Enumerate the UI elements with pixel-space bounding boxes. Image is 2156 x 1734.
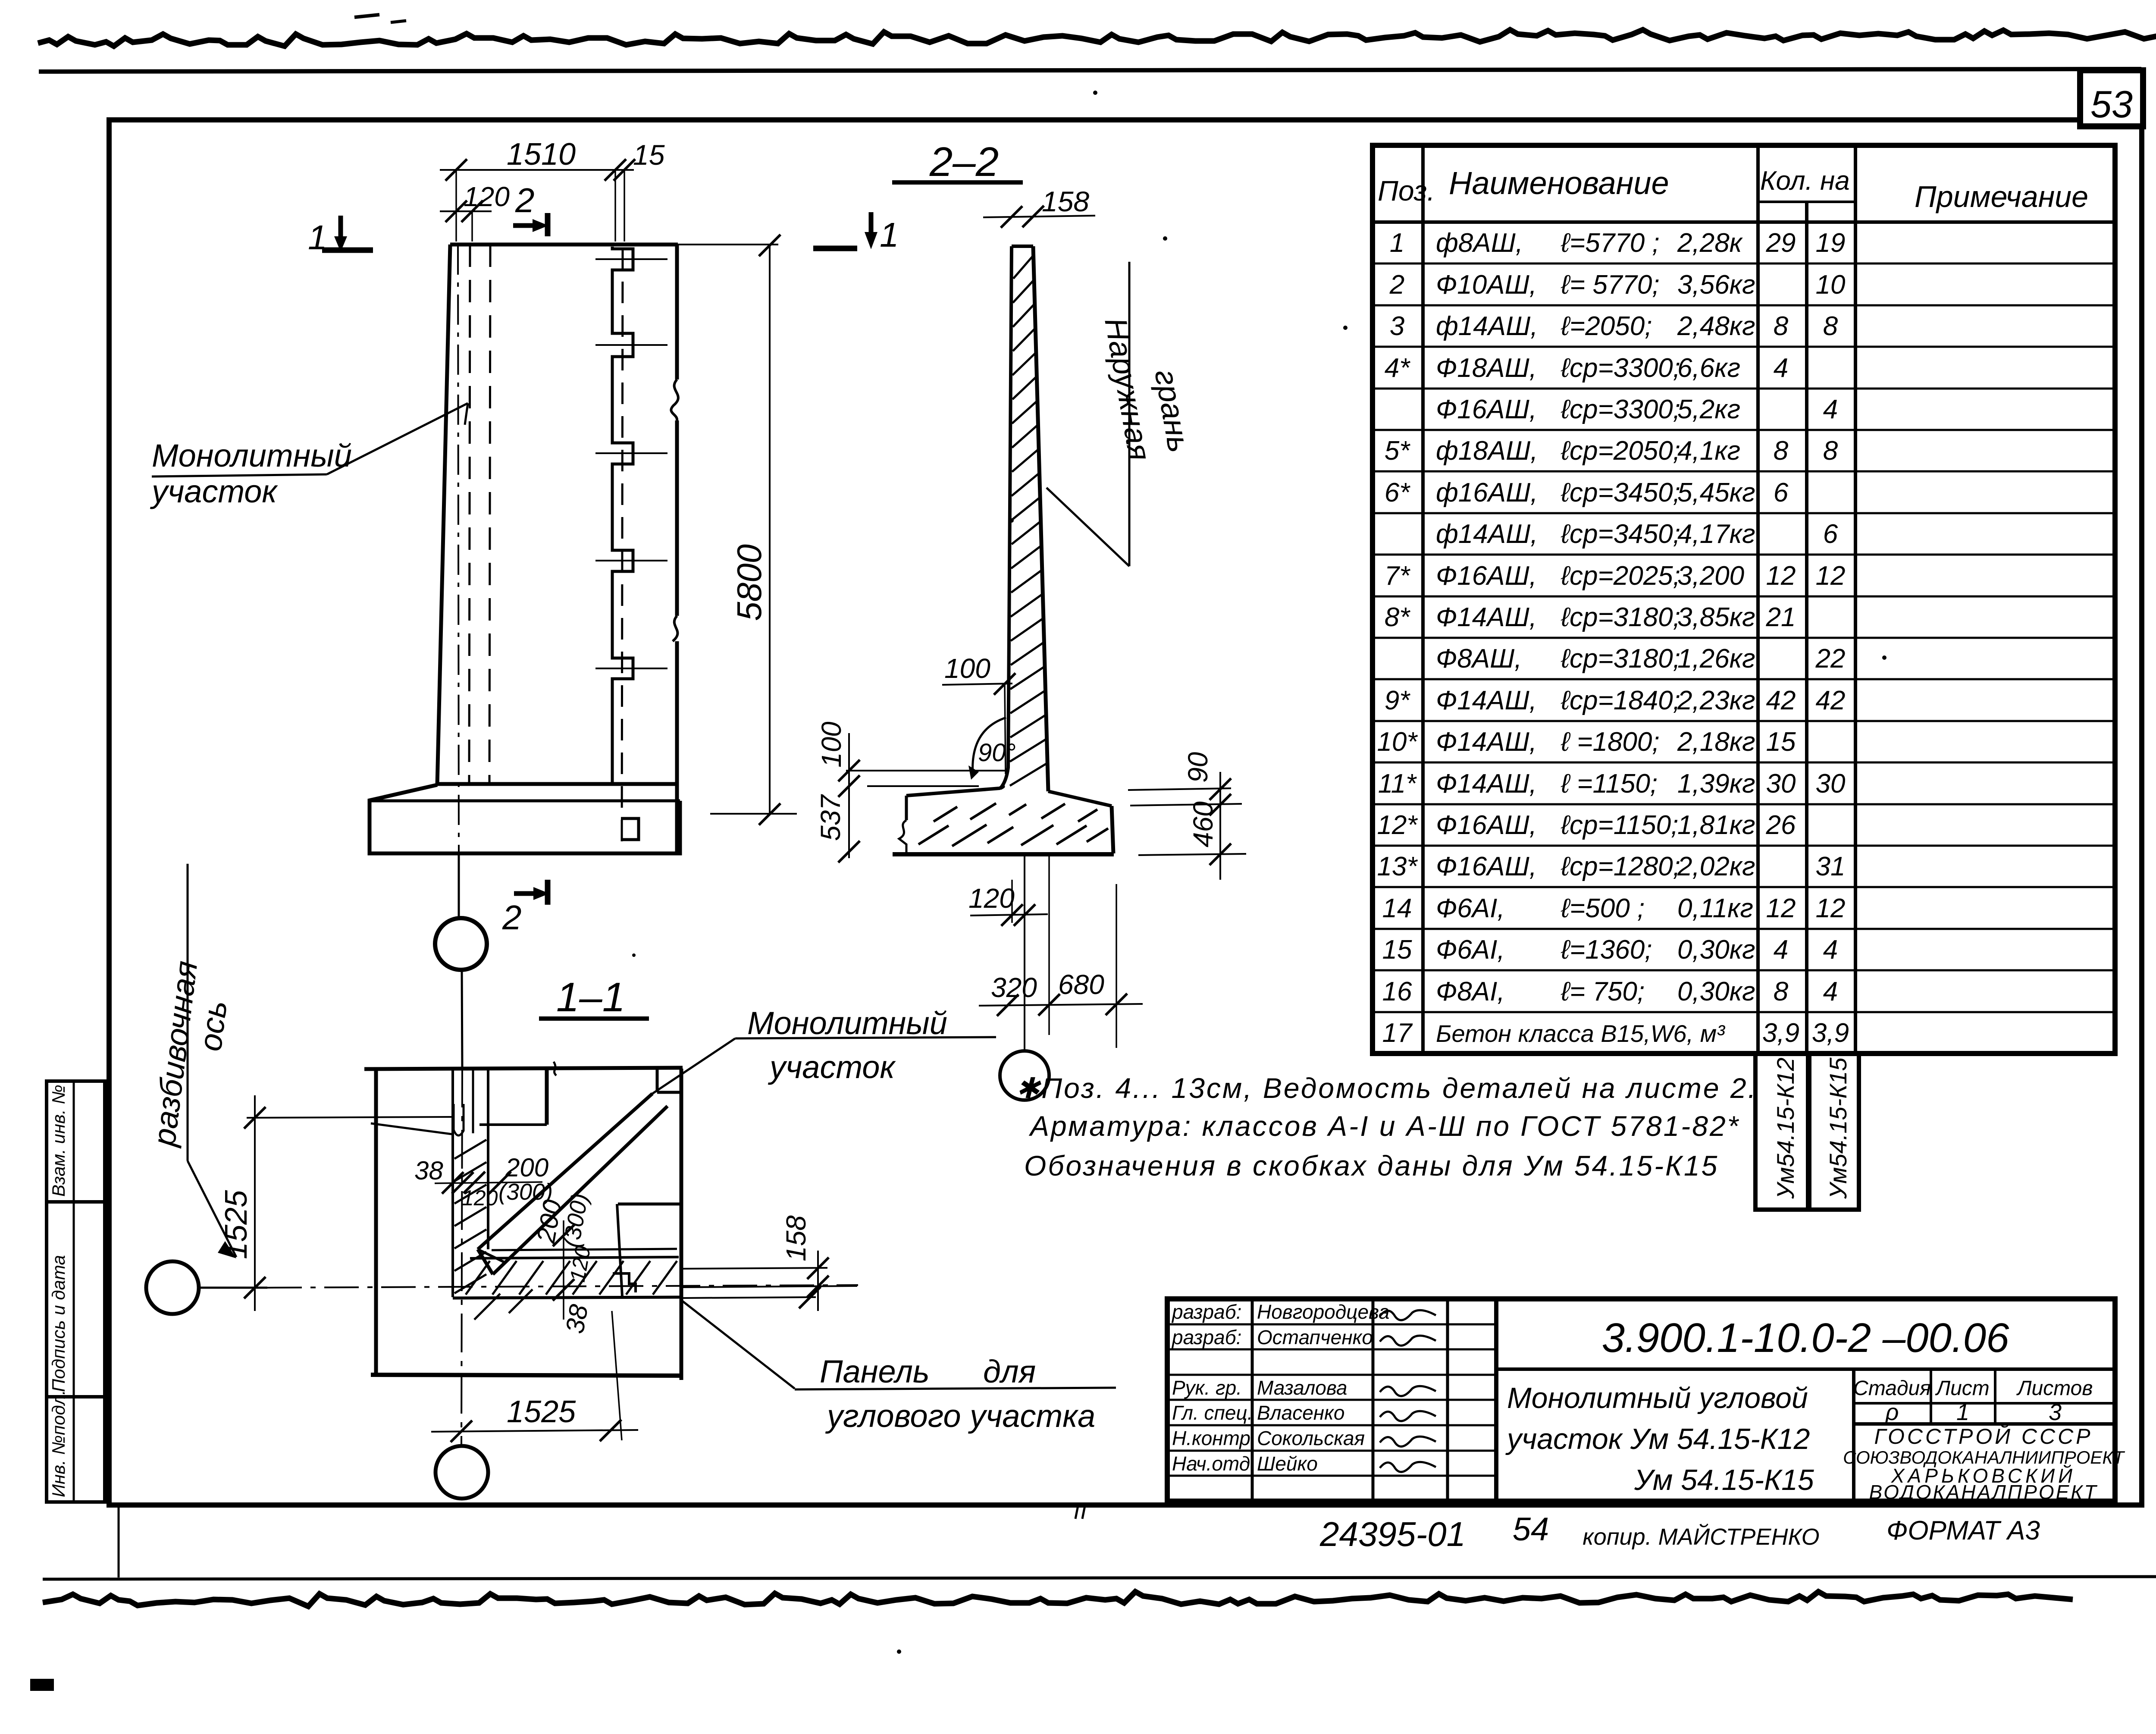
svg-text:Листов: Листов	[2016, 1377, 2093, 1400]
svg-text:21: 21	[1766, 602, 1796, 632]
parts table row lines	[1373, 263, 2115, 1012]
svg-text:Ум54.15-К15: Ум54.15-К15	[1824, 1057, 1852, 1199]
svg-text:100: 100	[944, 653, 990, 684]
svg-text:Ф10АШ,: Ф10АШ,	[1436, 270, 1537, 300]
svg-text:22: 22	[1815, 644, 1846, 674]
svg-text:14: 14	[1382, 894, 1412, 923]
svg-text:17: 17	[1382, 1018, 1413, 1048]
svg-text:Власенко: Власенко	[1257, 1402, 1344, 1424]
svg-text:12: 12	[1766, 561, 1796, 591]
top torn scan edge	[38, 30, 2156, 46]
svg-text:24395-01: 24395-01	[1319, 1515, 1466, 1553]
plan: horizontal axis dash-dot	[267, 1285, 858, 1288]
svg-text:ф16АШ,: ф16АШ,	[1436, 478, 1538, 508]
svg-text:3.900.1-10.0-2 –00.06: 3.900.1-10.0-2 –00.06	[1602, 1315, 2009, 1361]
svg-text:Остапченко: Остапченко	[1257, 1326, 1373, 1348]
svg-text:Ф16АШ,: Ф16АШ,	[1436, 395, 1537, 424]
svg-text:8: 8	[1774, 977, 1789, 1007]
svg-text:6,6кг: 6,6кг	[1677, 353, 1740, 383]
svg-text:Ф16АШ,: Ф16АШ,	[1436, 561, 1537, 591]
svg-text:Взам. инв. №: Взам. инв. №	[48, 1085, 69, 1197]
svg-text:ℓср=3300;: ℓср=3300;	[1561, 395, 1680, 424]
svg-text:ℓ=1360;: ℓ=1360;	[1561, 935, 1652, 965]
svg-text:12*: 12*	[1377, 810, 1418, 840]
svg-text:680: 680	[1058, 969, 1104, 1000]
svg-text:4: 4	[1823, 395, 1838, 424]
plan: wall inner face vertical	[487, 1069, 489, 1249]
svg-text:Ф16АШ,: Ф16АШ,	[1436, 852, 1537, 881]
plan: bottom axis bubble	[436, 1446, 488, 1499]
svg-text:1,39кг: 1,39кг	[1677, 769, 1755, 799]
svg-text:Ум54.15-К12: Ум54.15-К12	[1772, 1057, 1799, 1199]
svg-text:30: 30	[1766, 769, 1796, 799]
svg-text:ℓ= 5770;: ℓ= 5770;	[1561, 270, 1660, 300]
scan noise dots	[632, 91, 1887, 1654]
svg-text:Кол. на: Кол. на	[1760, 166, 1850, 196]
svg-text:0,30кг: 0,30кг	[1677, 977, 1755, 1007]
svg-text:Ф14АШ,: Ф14АШ,	[1436, 686, 1537, 715]
svg-text:3,9: 3,9	[1762, 1018, 1799, 1048]
svg-text:ℓср=1840;: ℓср=1840;	[1561, 686, 1680, 715]
parts table column lines	[1423, 145, 1855, 1054]
top-center stray dashes	[354, 15, 406, 22]
svg-text:Н.контр: Н.контр	[1172, 1427, 1250, 1449]
svg-text:Рук. гр.: Рук. гр.	[1172, 1377, 1242, 1399]
svg-text:158: 158	[1042, 185, 1089, 217]
svg-text:1: 1	[1956, 1399, 1969, 1425]
svg-text:ℓср=2025;: ℓср=2025;	[1561, 561, 1680, 591]
svg-text:5800: 5800	[730, 544, 768, 621]
svg-text:углового участка: углового участка	[825, 1398, 1095, 1434]
svg-text:30: 30	[1816, 769, 1846, 799]
svg-text:2: 2	[515, 181, 535, 219]
svg-text:0,30кг: 0,30кг	[1677, 935, 1755, 965]
section cut mark 1 (elevation top)	[308, 216, 373, 257]
svg-text:разраб:: разраб:	[1171, 1301, 1241, 1323]
svg-text:разраб:: разраб:	[1171, 1326, 1241, 1348]
svg-text:19: 19	[1816, 228, 1846, 258]
svg-text:ф18АШ,: ф18АШ,	[1436, 436, 1538, 466]
svg-text:10: 10	[1816, 270, 1846, 300]
svg-text:26: 26	[1766, 810, 1796, 840]
svg-text:13*: 13*	[1377, 852, 1418, 881]
svg-text:5*: 5*	[1385, 436, 1410, 466]
parts table outer frame	[1373, 145, 2115, 1054]
svg-text:120: 120	[462, 1186, 498, 1210]
svg-text:10*: 10*	[1377, 727, 1418, 757]
svg-text:1510: 1510	[507, 137, 576, 172]
svg-text:ℓср=3450;: ℓср=3450;	[1561, 519, 1680, 549]
svg-text:Наименование: Наименование	[1449, 165, 1669, 201]
section dim 320 / 680	[979, 855, 1143, 1048]
svg-text:ℓ=5770 ;: ℓ=5770 ;	[1561, 228, 1660, 258]
plan: adjacent panel section right arm	[613, 1204, 683, 1296]
svg-text:ВОДОКАНАЛПРОЕКТ: ВОДОКАНАЛПРОЕКТ	[1869, 1481, 2098, 1503]
section 2-2 level lines left	[846, 771, 1007, 786]
doc number cell	[1496, 1315, 2115, 1369]
svg-text:Сокольская: Сокольская	[1257, 1427, 1365, 1449]
elevation axis bubble	[435, 853, 487, 1069]
svg-text:4: 4	[1823, 935, 1838, 965]
svg-text:Ф6АI,: Ф6АI,	[1436, 894, 1505, 923]
svg-text:3: 3	[1390, 311, 1404, 341]
svg-text:Монолитный: Монолитный	[152, 438, 352, 473]
svg-text:537: 537	[815, 794, 846, 841]
svg-text:12: 12	[1766, 894, 1796, 923]
svg-text:Ф18АШ,: Ф18АШ,	[1436, 353, 1537, 383]
plan: vertical axis through	[461, 1069, 462, 1446]
svg-text:8: 8	[1774, 436, 1789, 466]
svg-text:Ум 54.15-К15: Ум 54.15-К15	[1634, 1464, 1814, 1496]
section title 2-2	[892, 139, 1023, 185]
elevation: wall left edge (tapered)	[437, 245, 450, 785]
svg-text:8: 8	[1774, 311, 1789, 341]
svg-text:2,23кг: 2,23кг	[1677, 686, 1755, 715]
svg-text:2: 2	[502, 898, 522, 937]
parts table header texts	[1373, 165, 2115, 222]
svg-text:8: 8	[1823, 436, 1838, 466]
plan dim 158 (right)	[683, 1215, 857, 1311]
leader label Panel dlya uglovogo uchastka	[681, 1300, 1116, 1434]
svg-text:Лист: Лист	[1935, 1377, 1990, 1400]
svg-text:100: 100	[816, 721, 847, 768]
elevation: foundation outline	[370, 784, 680, 853]
plan small dims 38 200 300 120 (top cluster)	[414, 1153, 553, 1210]
svg-text:ℓ =1800;: ℓ =1800;	[1561, 727, 1660, 757]
svg-text:1: 1	[1390, 228, 1404, 258]
svg-text:4: 4	[1823, 977, 1838, 1007]
svg-text:Панель: Панель	[820, 1354, 930, 1389]
svg-text:2,02кг: 2,02кг	[1677, 852, 1755, 881]
section 2-2 foundation outline	[893, 787, 1114, 854]
svg-text:1525: 1525	[219, 1190, 254, 1259]
elevation: wall top edge	[450, 243, 778, 247]
plan: corner wall thick vertical	[479, 1069, 547, 1125]
svg-text:4*: 4*	[1385, 353, 1410, 383]
vertical label boxes Um54.15-K12 / K15	[1755, 1054, 1859, 1210]
svg-text:Ф16АШ,: Ф16АШ,	[1436, 810, 1537, 840]
elevation: foundation notch square	[621, 818, 639, 840]
elevation: panel right heavy edge with breaks	[671, 245, 678, 853]
section 2-2 foundation hatching	[918, 803, 1108, 846]
svg-text:1,26кг: 1,26кг	[1677, 644, 1755, 674]
section dim 460 (vertical, right)	[1188, 801, 1231, 865]
title block signature texts	[1171, 1301, 1390, 1475]
svg-text:0,11кг: 0,11кг	[1677, 894, 1753, 923]
svg-text:Инв. №подл.: Инв. №подл.	[48, 1390, 69, 1497]
svg-text:2,48кг: 2,48кг	[1677, 311, 1755, 341]
svg-text:42: 42	[1766, 686, 1796, 715]
svg-text:для: для	[983, 1354, 1036, 1389]
svg-text:6: 6	[1823, 519, 1838, 549]
left margin stamp: Podpis i data cell	[47, 1202, 105, 1397]
svg-text:Обозначения в скобках даны дл: Обозначения в скобках даны для Ум 54.15-…	[1024, 1150, 1719, 1182]
svg-text:5,2кг: 5,2кг	[1677, 395, 1740, 424]
svg-text:29: 29	[1766, 228, 1796, 258]
section 2-2 wall outline	[1000, 246, 1048, 791]
svg-text:320: 320	[991, 972, 1037, 1003]
title block outer	[1167, 1299, 2115, 1501]
plan: panel joint groove	[454, 1069, 473, 1135]
plan: wall outer face vertical	[451, 1069, 454, 1297]
svg-text:2,18кг: 2,18кг	[1677, 727, 1755, 757]
leader label Monolitnyi uchastok (elevation)	[150, 403, 468, 509]
elevation dim 5800	[710, 235, 797, 825]
svg-text:Поз.: Поз.	[1378, 175, 1435, 207]
title block signatures squiggles	[1380, 1310, 1436, 1472]
double tick mark below frame bottom	[1075, 1506, 1085, 1519]
bottom rule below frame	[43, 1577, 2156, 1579]
svg-text:200: 200	[505, 1153, 548, 1182]
leader label Monolitnyi uchastok (plan)	[652, 1005, 996, 1094]
svg-text:42: 42	[1816, 686, 1846, 715]
svg-text:53: 53	[2090, 83, 2133, 125]
elevation: hidden edge dashed line B	[489, 245, 490, 784]
stadiya list listov header	[1853, 1369, 2115, 1425]
svg-text:ℓср=1150;: ℓср=1150;	[1561, 810, 1678, 840]
svg-text:3,9: 3,9	[1812, 1018, 1849, 1048]
svg-text:31: 31	[1816, 852, 1846, 881]
organization cell	[1843, 1424, 2125, 1503]
svg-text:12: 12	[1816, 894, 1846, 923]
svg-text:6: 6	[1774, 478, 1789, 508]
svg-text:Ф14АШ,: Ф14АШ,	[1436, 769, 1537, 799]
elevation: panel notched joint line	[612, 247, 633, 784]
bottom margin texts	[1319, 1511, 2040, 1553]
svg-text:4,17кг: 4,17кг	[1677, 519, 1755, 549]
label Razbivochnaya os	[146, 864, 236, 1258]
svg-text:Бетон класса В15,W6, м³: Бетон класса В15,W6, м³	[1436, 1020, 1725, 1047]
svg-text:16: 16	[1382, 977, 1412, 1007]
svg-text:ℓ =1150;: ℓ =1150;	[1561, 769, 1658, 799]
section dim 158	[983, 185, 1095, 228]
plan: far wall face lines entering left	[247, 1117, 452, 1134]
svg-text:ℓ= 750;: ℓ= 750;	[1561, 977, 1645, 1007]
svg-text:ГОССТРОЙ СССР: ГОССТРОЙ СССР	[1874, 1424, 2093, 1449]
svg-text:Ф14АШ,: Ф14АШ,	[1436, 602, 1537, 632]
svg-text:15: 15	[1766, 727, 1796, 757]
svg-text:90°: 90°	[978, 739, 1016, 767]
svg-text:4: 4	[1774, 935, 1788, 965]
section dim 537 (vertical, left)	[815, 794, 860, 862]
svg-text:Нач.отд: Нач.отд	[1172, 1452, 1250, 1475]
title block signature columns	[1252, 1299, 1496, 1501]
parts table body texts	[1377, 228, 1849, 1048]
svg-text:5,45кг: 5,45кг	[1677, 478, 1755, 508]
svg-text:✱Поз. 4... 13см, Ведомость д: ✱Поз. 4... 13см, Ведомость деталей на ли…	[1016, 1072, 1758, 1104]
bottom torn scan edge	[43, 1592, 2073, 1606]
svg-text:8*: 8*	[1385, 602, 1410, 632]
section dim 100 (top of toe)	[942, 653, 1015, 774]
svg-text:12: 12	[1816, 561, 1846, 591]
section dim 100 (vertical, left)	[816, 721, 860, 858]
plan dim 1525 (bottom)	[431, 1311, 638, 1442]
section dim 120 (below)	[968, 880, 1048, 926]
svg-text:1: 1	[308, 218, 327, 257]
elevation dim 15	[614, 139, 665, 241]
svg-text:Ф6АI,: Ф6АI,	[1436, 935, 1505, 965]
svg-text:3,85кг: 3,85кг	[1677, 602, 1755, 632]
svg-text:15: 15	[1382, 935, 1412, 965]
svg-text:158: 158	[780, 1215, 812, 1261]
plan: corner square top right	[657, 1069, 683, 1092]
elevation dim 1510	[440, 137, 634, 241]
plan: top edge break squiggle	[554, 1062, 556, 1076]
section level lines right	[1128, 788, 1246, 855]
svg-text:ℓср=3180;: ℓср=3180;	[1561, 602, 1680, 632]
svg-text:1525: 1525	[507, 1395, 576, 1429]
svg-text:ℓ=2050;: ℓ=2050;	[1561, 311, 1652, 341]
svg-text:участок: участок	[768, 1049, 896, 1085]
elevation: hidden edge dashed line A	[469, 245, 470, 784]
svg-text:участок Ум 54.15-К12: участок Ум 54.15-К12	[1505, 1423, 1810, 1455]
svg-text:3,200: 3,200	[1677, 561, 1744, 591]
plan: left axis bubble	[146, 1261, 267, 1314]
bottom-left scan mark	[30, 1679, 54, 1691]
section axis bubble	[1000, 855, 1049, 1100]
title block signature row lines	[1167, 1324, 1496, 1476]
svg-text:38: 38	[414, 1156, 443, 1185]
svg-text:54: 54	[1513, 1511, 1549, 1548]
svg-text:1–1: 1–1	[556, 974, 625, 1020]
plan dim 1525 (left vertical)	[219, 1095, 266, 1311]
svg-text:Монолитный угловой: Монолитный угловой	[1507, 1382, 1808, 1414]
name cell texts	[1505, 1369, 1854, 1501]
svg-text:участок: участок	[150, 473, 278, 509]
svg-text:копир. МАЙСТРЕНКО: копир. МАЙСТРЕНКО	[1583, 1524, 1819, 1550]
svg-text:6*: 6*	[1385, 478, 1410, 508]
svg-text:ф8АШ,: ф8АШ,	[1436, 228, 1523, 258]
svg-text:ρ: ρ	[1885, 1399, 1899, 1425]
svg-text:Мазалова: Мазалова	[1257, 1377, 1347, 1399]
svg-text:8: 8	[1823, 311, 1838, 341]
svg-text:2–2: 2–2	[929, 139, 999, 185]
svg-text:ℓ=500 ;: ℓ=500 ;	[1561, 894, 1645, 923]
svg-text:1,81кг: 1,81кг	[1677, 810, 1755, 840]
svg-text:ℓср=3450;: ℓср=3450;	[1561, 478, 1680, 508]
elevation: panel joint dashed line	[622, 248, 623, 849]
elevation: notch center dashes	[595, 259, 667, 668]
svg-text:3: 3	[2049, 1399, 2062, 1425]
plan: gusset diagonals	[478, 1094, 667, 1274]
svg-text:7*: 7*	[1385, 561, 1410, 591]
svg-text:3,56кг: 3,56кг	[1677, 270, 1755, 300]
svg-text:Гл. спец.: Гл. спец.	[1172, 1402, 1253, 1424]
section cut mark 2 (elevation bottom)	[502, 880, 549, 937]
left margin stamp divider	[73, 1081, 75, 1502]
svg-text:ℓср=1280;: ℓср=1280;	[1561, 852, 1680, 881]
left margin stamp: Vzam.inv.N cell	[47, 1081, 105, 1202]
svg-text:9*: 9*	[1385, 686, 1410, 715]
svg-text:ℓср=3180;: ℓср=3180;	[1561, 644, 1680, 674]
svg-text:90: 90	[1182, 752, 1213, 783]
svg-text:11*: 11*	[1378, 769, 1417, 799]
plan small dims 200 300 120 38 (right rotated cluster)	[531, 1192, 595, 1336]
svg-text:ф14АШ,: ф14АШ,	[1436, 519, 1538, 549]
plan: inner corner horizontals	[453, 1249, 680, 1298]
svg-text:2,28к: 2,28к	[1677, 228, 1743, 258]
svg-text:1: 1	[880, 216, 899, 254]
svg-text:Арматура: классов А-I и А-Ш по: Арматура: классов А-I и А-Ш по ГОСТ 5781…	[1028, 1110, 1740, 1142]
svg-text:ФОРМАТ А3: ФОРМАТ А3	[1887, 1516, 2040, 1546]
svg-text:ℓср=3300;: ℓср=3300;	[1561, 353, 1680, 383]
svg-text:2: 2	[1389, 270, 1404, 300]
top horizontal rule	[39, 69, 2141, 72]
svg-text:Монолитный: Монолитный	[747, 1005, 947, 1041]
sheet frame border	[109, 120, 2142, 1505]
svg-text:4: 4	[1774, 353, 1788, 383]
svg-text:120: 120	[464, 181, 510, 212]
svg-text:ф14АШ,: ф14АШ,	[1436, 311, 1538, 341]
section dim 90 arc	[968, 718, 1016, 780]
svg-text:Новгородцева: Новгородцева	[1257, 1301, 1390, 1323]
plan: wall hatching	[454, 1140, 677, 1320]
Naruzhnaya gran label	[1047, 262, 1197, 566]
section dim 90 (vertical, right)	[1182, 752, 1231, 880]
frame left edge extension below	[118, 1505, 120, 1577]
section cut mark 1 (section 2-2 top)	[813, 212, 899, 254]
left margin stamp: Inv.N podl. cell	[47, 1390, 105, 1502]
svg-text:Стадия: Стадия	[1853, 1377, 1931, 1400]
svg-text:38: 38	[560, 1302, 594, 1336]
svg-text:Подпись и дата: Подпись и дата	[48, 1255, 69, 1392]
svg-text:ось: ось	[192, 999, 234, 1053]
svg-text:Шейко: Шейко	[1257, 1452, 1318, 1475]
svg-text:Ф8АI,: Ф8АI,	[1436, 977, 1505, 1007]
svg-text:460: 460	[1188, 801, 1219, 847]
section 2-2 wall hatching	[1010, 256, 1047, 786]
svg-text:Примечание: Примечание	[1915, 180, 2088, 213]
section cut mark 2 (elevation top)	[513, 181, 548, 236]
svg-text:ℓср=2050;: ℓср=2050;	[1561, 436, 1680, 466]
svg-text:Ф14АШ,: Ф14АШ,	[1436, 727, 1537, 757]
notes text 3 lines	[1016, 1072, 1758, 1182]
svg-text:15: 15	[633, 139, 665, 171]
elevation dim 120	[440, 181, 510, 241]
svg-text:4,1кг: 4,1кг	[1677, 436, 1740, 466]
elevation: centerline axis	[458, 245, 459, 853]
view title 1-1	[539, 974, 649, 1020]
svg-text:Ф8АШ,: Ф8АШ,	[1436, 644, 1522, 674]
svg-text:120: 120	[968, 883, 1015, 914]
page number box 53	[2080, 70, 2143, 126]
plan: foundation outer edge	[364, 1068, 821, 1380]
